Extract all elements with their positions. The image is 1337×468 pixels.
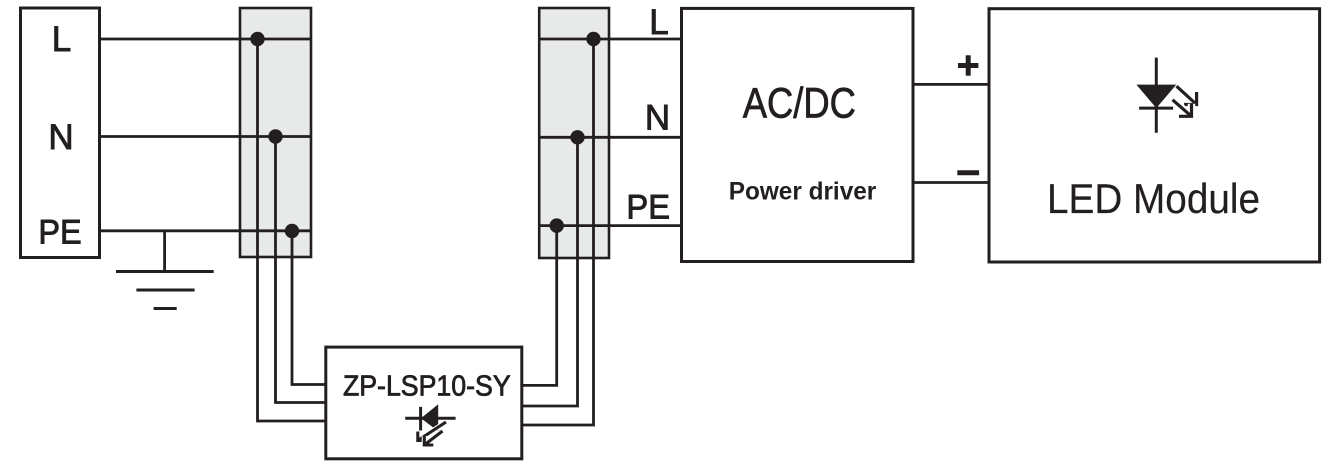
wire L TB1 to SPD bbox=[258, 39, 326, 421]
wire L TB2 to driver bbox=[539, 38, 681, 41]
wire PE mains to TB1 bbox=[100, 229, 312, 232]
svg-text:AC/DC: AC/DC bbox=[743, 79, 856, 127]
junction dot L on TB1 bbox=[250, 32, 264, 46]
junction dot N on TB2 bbox=[570, 130, 584, 144]
svg-text:L: L bbox=[52, 20, 71, 59]
LED symbol in SPD bbox=[405, 404, 455, 445]
wire PE SPD to TB2 bbox=[522, 226, 557, 386]
svg-text:LED Module: LED Module bbox=[1047, 175, 1260, 222]
svg-text:Power driver: Power driver bbox=[729, 178, 877, 206]
LED symbol in LED module bbox=[1136, 58, 1196, 133]
wire PE TB1 to SPD bbox=[292, 231, 326, 385]
wire plus driver to LED module bbox=[913, 83, 991, 86]
wire N mains to TB1 bbox=[100, 135, 312, 138]
svg-text:ZP-LSP10-SY: ZP-LSP10-SY bbox=[343, 370, 511, 402]
wire N TB2 to driver bbox=[539, 136, 681, 139]
wire minus driver to LED module bbox=[913, 181, 991, 184]
svg-text:PE: PE bbox=[38, 213, 81, 251]
junction dot PE on TB2 bbox=[550, 218, 564, 232]
svg-text:PE: PE bbox=[626, 189, 670, 227]
junction dot L on TB2 bbox=[586, 32, 600, 46]
wire L mains to TB1 bbox=[100, 38, 312, 41]
ground symbol bbox=[116, 231, 214, 309]
wire L SPD to TB2 bbox=[522, 39, 594, 425]
svg-text:N: N bbox=[645, 99, 670, 138]
minus symbol bbox=[957, 170, 979, 175]
LED module box bbox=[989, 9, 1320, 262]
svg-text:L: L bbox=[649, 3, 668, 42]
junction dot PE on TB1 bbox=[285, 224, 299, 238]
AC/DC driver box bbox=[682, 8, 914, 261]
wire N TB1 to SPD bbox=[276, 137, 326, 403]
terminal block TB1 bbox=[240, 8, 311, 257]
terminal block TB2 bbox=[539, 8, 609, 258]
wire PE TB2 to driver bbox=[539, 224, 681, 227]
junction dot N on TB1 bbox=[268, 129, 282, 143]
mains input box bbox=[21, 8, 100, 258]
svg-text:N: N bbox=[48, 118, 73, 157]
SPD box ZP-LSP10-SY bbox=[326, 347, 522, 459]
wire N SPD to TB2 bbox=[522, 137, 578, 406]
plus symbol bbox=[958, 55, 978, 75]
